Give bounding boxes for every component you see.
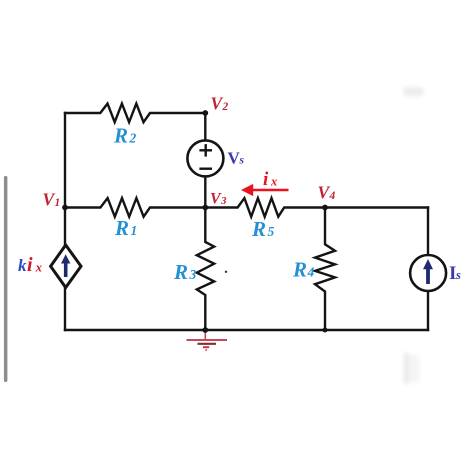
svg-text:x: x	[270, 175, 277, 189]
svg-text:k: k	[18, 256, 27, 275]
svg-text:R: R	[251, 217, 266, 241]
svg-text:4: 4	[329, 190, 336, 202]
svg-text:2: 2	[222, 101, 229, 113]
svg-text:1: 1	[131, 223, 138, 238]
svg-text:i: i	[27, 254, 33, 276]
svg-text:3: 3	[220, 195, 227, 207]
svg-text:R: R	[114, 216, 129, 240]
svg-text:R: R	[292, 258, 307, 282]
svg-text:R: R	[173, 260, 188, 284]
svg-text:4: 4	[307, 265, 315, 280]
svg-text:2: 2	[129, 131, 137, 146]
svg-text:s: s	[239, 155, 245, 167]
svg-text:5: 5	[268, 224, 275, 239]
svg-text:x: x	[35, 261, 42, 275]
svg-text:1: 1	[55, 197, 61, 209]
svg-text:i: i	[263, 169, 269, 190]
svg-text:R: R	[113, 124, 128, 148]
svg-text:3: 3	[189, 267, 197, 282]
svg-text:s: s	[455, 268, 461, 282]
